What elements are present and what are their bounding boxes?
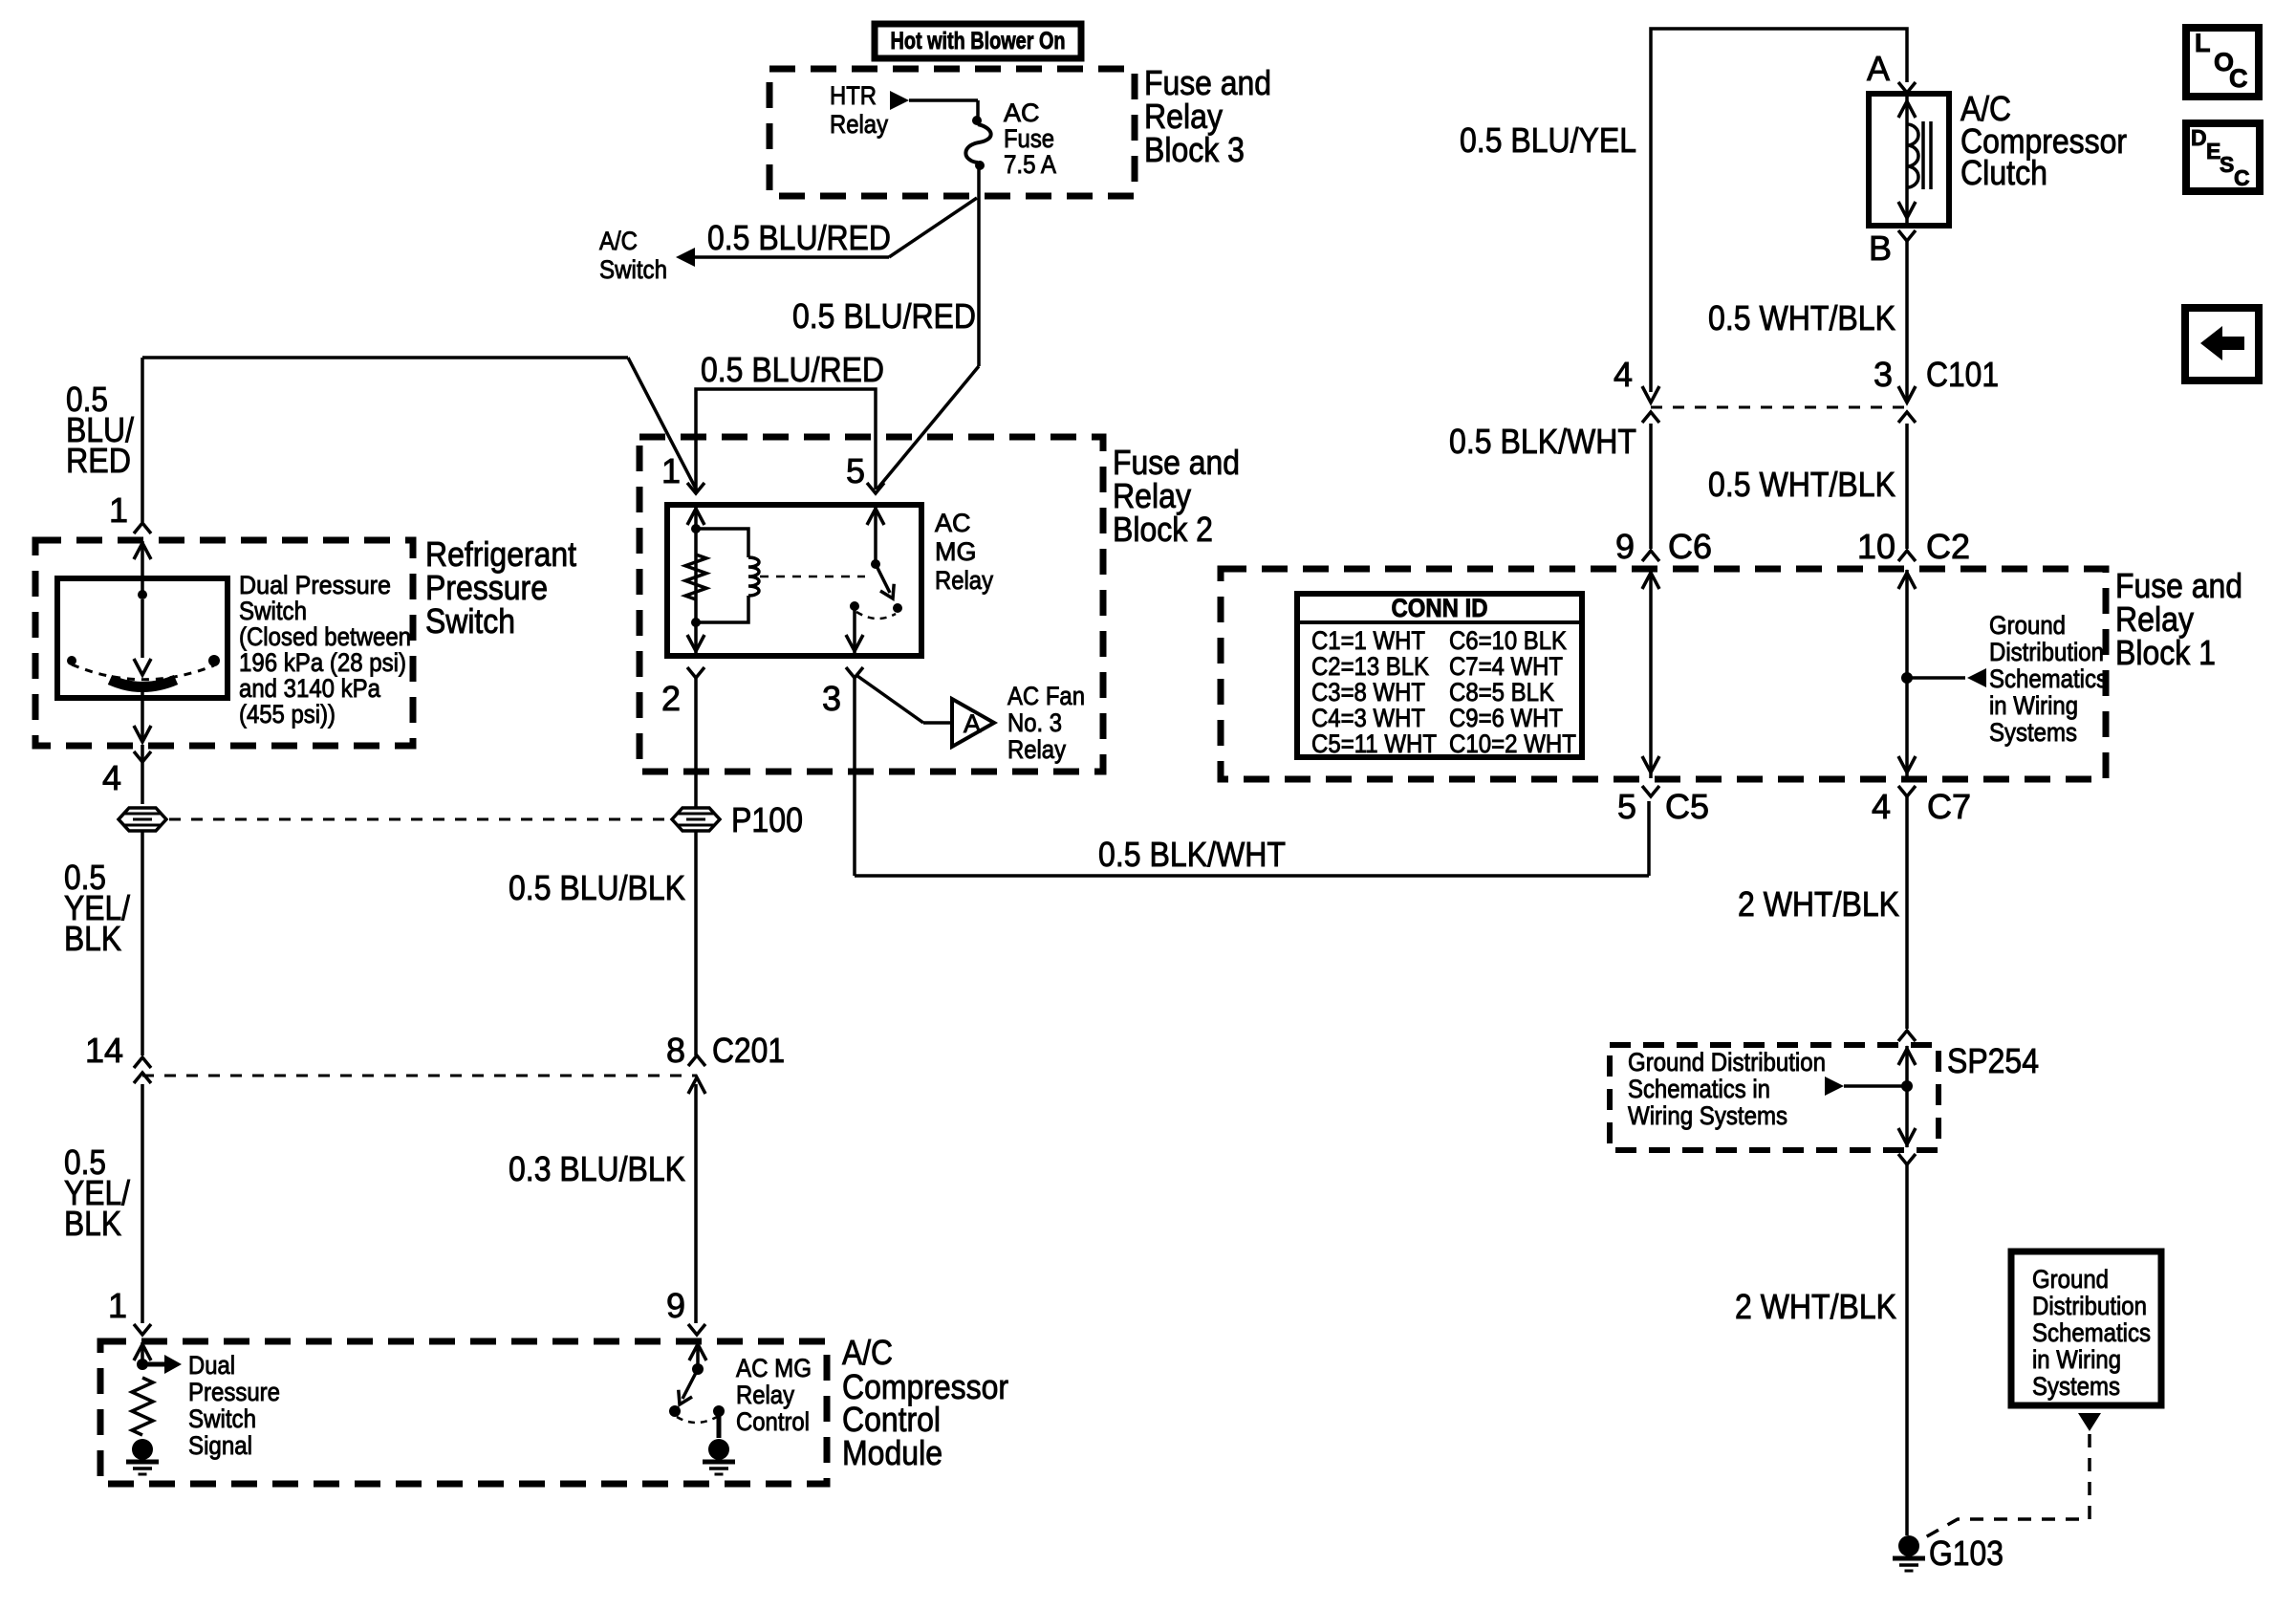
svg-text:Wiring Systems: Wiring Systems [1628,1101,1787,1130]
svg-text:1: 1 [661,451,681,490]
connector C6 [1642,551,1659,561]
switch: dual pressure switch moving contact [141,599,144,658]
svg-text:Switch: Switch [239,597,307,625]
coil: clutch winding [1905,95,1909,225]
svg-text:S: S [2220,152,2234,177]
connector clutch pin B [1898,230,1916,241]
ground G103 [1898,1535,1919,1556]
svg-text:Ground: Ground [2032,1265,2109,1294]
wire: 0.5 BLU/RED fuse output down [977,169,981,366]
svg-text:B: B [1869,228,1892,268]
svg-text:C: C [2234,165,2250,190]
svg-text:Distribution: Distribution [1989,638,2104,666]
svg-text:D: D [2191,125,2207,150]
dashed link: connector C201 [142,1075,697,1077]
svg-text:Switch: Switch [188,1404,256,1433]
svg-text:C4=3 WHT: C4=3 WHT [1311,704,1425,732]
svg-text:A: A [1867,49,1890,88]
wire: 0.5 BLU/YEL top run [1651,29,1907,392]
dashed box: SP254 splice [1610,1045,1939,1150]
dashed box: Fuse and Relay Block 3 [769,69,1135,196]
svg-text:0.5 BLK/WHT: 0.5 BLK/WHT [1098,835,1286,874]
wire: module pin 9 entry [696,1342,700,1367]
triangle: AC Fan No 3 Relay reference A [952,699,994,747]
svg-text:2: 2 [661,679,681,718]
svg-text:C10=2 WHT: C10=2 WHT [1449,729,1576,758]
node: AC MG relay control contact left [669,1405,681,1417]
svg-text:2 WHT/BLK: 2 WHT/BLK [1735,1287,1896,1326]
wire: 0.5 BLU/BLK relay pin2 to C201 pin 8 [694,832,698,1055]
connector clutch pin A [1898,82,1916,93]
node: relay coil bottom [691,618,701,627]
connector C101 chevrons [1642,412,1659,423]
box: Ground Distribution Schematics in Wiring Systems [2011,1251,2161,1405]
svg-text:Switch: Switch [425,601,515,641]
svg-text:14: 14 [85,1031,123,1070]
svg-text:P100: P100 [731,800,803,839]
svg-text:BLK: BLK [64,919,121,958]
node: relay common contact [850,601,859,611]
grommet P100 [672,808,720,831]
wire: relay pin 3 down [853,678,856,876]
resistor: relay internal [685,555,706,599]
wire: relay pin1 internal [694,506,698,655]
svg-text:C2: C2 [1926,527,1970,566]
svg-text:C201: C201 [712,1031,785,1070]
connector C5 [1642,786,1659,796]
box: Hot with Blower On banner [875,24,1081,58]
svg-text:3: 3 [1874,355,1893,394]
svg-text:Schematics: Schematics [1989,664,2108,693]
svg-text:C6: C6 [1668,527,1712,566]
svg-text:2 WHT/BLK: 2 WHT/BLK [1738,884,1899,924]
node: relay coil top [691,524,701,533]
svg-text:C101: C101 [1926,355,1999,394]
svg-text:8: 8 [666,1031,685,1070]
svg-text:Fuse: Fuse [1004,124,1054,153]
svg-text:SP254: SP254 [1947,1041,2039,1080]
svg-text:No. 3: No. 3 [1007,708,1062,737]
svg-text:AC Fan: AC Fan [1007,682,1085,710]
wire: entry into pressure switch [141,541,144,593]
switch: AC MG relay control arm [682,1369,698,1399]
box: LOC legend [2186,28,2259,97]
svg-text:C1=1 WHT: C1=1 WHT [1311,626,1425,655]
svg-text:0.5 BLU/YEL: 0.5 BLU/YEL [1460,120,1636,160]
svg-text:Relay: Relay [1007,735,1066,764]
wire: diagonal 0.5 BLU/RED to relay pin 5 [877,366,979,489]
node: relay switch pivot [871,559,880,569]
connector C201 pin 14 [134,1057,151,1068]
node: AC MG relay control contact right [713,1405,725,1417]
arrow: ground box reference [2078,1413,2101,1431]
svg-text:in Wiring: in Wiring [2032,1345,2121,1374]
resistor: dual pressure switch signal pull [132,1378,153,1435]
coil: relay winding [696,529,748,557]
node: pressure switch top contact [138,590,147,599]
svg-text:(Closed between: (Closed between [239,622,411,651]
box: dual pressure switch body [57,578,227,698]
svg-text:Ground Distribution: Ground Distribution [1628,1048,1826,1077]
wire: 2 WHT/BLK SP254 to G103 [1905,1164,1909,1535]
switch: dual pressure switch contact travel (dashed) [72,664,214,680]
svg-text:C2=13 BLK: C2=13 BLK [1311,652,1429,681]
svg-text:A/C: A/C [842,1333,893,1372]
svg-text:Switch: Switch [599,255,667,284]
wire: contact to internal ground [717,1415,722,1438]
svg-text:C5=11 WHT: C5=11 WHT [1311,729,1437,758]
dashed link between grommets [169,818,671,821]
svg-text:and 3140 kPa: and 3140 kPa [239,674,381,703]
dashed box: Fuse and Relay Block 1 [1221,569,2106,779]
svg-text:BLK: BLK [64,1204,121,1243]
svg-text:C5: C5 [1665,787,1709,826]
svg-text:10: 10 [1857,527,1895,566]
svg-text:C7=4 WHT: C7=4 WHT [1449,652,1563,681]
svg-text:9: 9 [666,1286,685,1325]
wire arrow at C101 pin 4 [1642,386,1659,402]
switch: relay arm [876,564,890,593]
wire: block1 left internal [1649,570,1653,778]
svg-text:0.5 BLU/RED: 0.5 BLU/RED [701,350,884,389]
svg-text:Control: Control [736,1407,810,1436]
wire: left column down to pressure switch pin 1 [141,358,144,522]
svg-text:1: 1 [109,490,128,530]
connector pin 1 of pressure switch [134,523,151,533]
svg-text:(455 psi)): (455 psi)) [239,700,336,729]
svg-text:4: 4 [1614,355,1633,394]
connector pin 4 of pressure switch [134,751,151,762]
svg-text:C6=10 BLK: C6=10 BLK [1449,626,1567,655]
wire: hot feed from HTR Relay to AC Fuse [890,91,909,110]
wire: relay pin 2 down to P100 [694,678,698,808]
fuse F: AC Fuse 7.5 A [972,116,982,125]
svg-text:Module: Module [842,1433,942,1472]
svg-text:in Wiring: in Wiring [1989,691,2078,720]
connector relay pin 1 [687,483,704,493]
svg-text:L: L [2195,29,2211,57]
connector module pin 9 [688,1324,705,1335]
connector C2 [1898,551,1916,561]
svg-text:C8=5 BLK: C8=5 BLK [1449,678,1554,707]
dashed box: Fuse and Relay Block 2 [639,437,1103,772]
svg-text:Block 3: Block 3 [1144,130,1245,169]
node: block1 ground distribution tap [1901,672,1913,684]
box: A/C Compressor Clutch [1869,94,1949,226]
icon: back arrow [2200,326,2244,360]
wire: pressure switch output to pin 4 [141,687,144,742]
svg-text:Hot with Blower On: Hot with Blower On [891,28,1066,54]
svg-text:Distribution: Distribution [2032,1292,2147,1320]
connector module pin 1 [134,1324,151,1335]
svg-text:Relay: Relay [830,110,888,139]
dashed link: ground box to G103 [1918,1434,2090,1541]
ground: module internal (left) [132,1439,153,1460]
wire: 0.5 WHT/BLK clutch B to C101 [1905,241,1909,402]
svg-text:A: A [964,709,981,738]
svg-text:AC MG: AC MG [736,1354,812,1382]
svg-text:A/C: A/C [599,227,638,255]
svg-text:0.3 BLU/BLK: 0.3 BLU/BLK [509,1149,685,1188]
svg-text:Pressure: Pressure [188,1378,280,1406]
dashed arc: relay contact travel [856,612,896,619]
table: CONN ID [1297,594,1582,757]
connector relay pin 2 [687,667,704,678]
wire: 0.5 YEL/BLK pin4 to C201 pin 14 [141,832,144,1055]
svg-text:Schematics in: Schematics in [1628,1075,1770,1103]
dashed link: relay actuation [760,576,865,578]
arrow: dual pressure switch signal ref [146,1362,164,1367]
svg-text:Signal: Signal [188,1431,252,1460]
wire: 0.5 YEL/BLK C201 to module pin 1 [141,1084,144,1323]
ground: module internal (right) [708,1439,729,1460]
svg-text:MG: MG [935,537,977,566]
arrow: ground distribution schematics ref (block1) [1907,676,1965,680]
svg-text:0.5 BLU/RED: 0.5 BLU/RED [707,218,891,257]
node: AC MG relay control pivot [692,1363,704,1375]
svg-text:Relay: Relay [935,566,993,595]
svg-text:7.5 A: 7.5 A [1004,150,1056,179]
svg-text:Ground: Ground [1989,611,2066,640]
dashed arc: AC MG relay control travel [677,1417,717,1423]
wire: 0.5 BLU/RED from refrigerant pressure switch (top left run) [142,356,628,359]
svg-text:0.5 BLU/RED: 0.5 BLU/RED [792,296,976,336]
wire: branch diagonal to A/C Switch [889,198,977,257]
svg-text:Dual Pressure: Dual Pressure [239,571,391,599]
arrow to A/C Switch [676,248,695,267]
wire: block1 right internal [1905,570,1909,778]
node: dual pressure switch signal [137,1359,148,1370]
dashed box: Refrigerant Pressure Switch [35,540,413,746]
svg-text:Clutch: Clutch [1960,153,2047,192]
svg-text:C7: C7 [1927,787,1971,826]
svg-text:AC: AC [935,509,971,537]
wire: 0.5 WHT/BLK C101 to C2 [1905,424,1909,549]
svg-text:AC: AC [1004,98,1040,127]
svg-text:CONN ID: CONN ID [1392,594,1488,622]
arrow: ground distribution ref (SP254) [1825,1077,1844,1096]
svg-text:196 kPa (28 psi): 196 kPa (28 psi) [239,648,406,677]
wire: 0.3 BLU/BLK C201 to module pin 9 [694,1084,698,1323]
box: DESC legend [2186,123,2260,191]
svg-text:Systems: Systems [2032,1372,2120,1401]
svg-text:Block 2: Block 2 [1113,510,1213,549]
connector above SP254 [1898,1031,1916,1041]
svg-text:5: 5 [1617,787,1636,826]
svg-text:C9=6 WHT: C9=6 WHT [1449,704,1563,732]
wire: 2 WHT/BLK C7 to SP254 [1905,796,1909,1029]
svg-text:0.5 BLK/WHT: 0.5 BLK/WHT [1449,422,1636,461]
svg-text:3: 3 [822,679,841,718]
svg-text:Schematics: Schematics [2032,1318,2151,1347]
connector relay pin 5 [867,483,884,493]
node: relay arm end [893,603,902,613]
box: back arrow legend [2185,308,2259,381]
svg-text:RED: RED [66,441,131,480]
svg-text:C: C [2229,64,2248,93]
svg-text:0.5 WHT/BLK: 0.5 WHT/BLK [1708,298,1895,337]
svg-text:9: 9 [1615,527,1635,566]
svg-text:Block 1: Block 1 [2115,633,2216,672]
svg-text:Systems: Systems [1989,718,2077,747]
wire: relay pin5 internal [874,506,877,562]
connector relay pin 3 [846,667,863,678]
svg-text:HTR: HTR [830,81,877,110]
svg-text:Dual: Dual [188,1351,235,1380]
wire: 0.5 BLK/WHT C101 to C6 [1649,424,1653,549]
svg-text:0.5 BLU/BLK: 0.5 BLU/BLK [509,868,685,907]
wire: 0.5 BLK/WHT run to C5 [855,874,1649,878]
svg-text:Relay: Relay [736,1381,794,1409]
connector C7 [1898,786,1916,796]
box: AC MG Relay [667,505,921,656]
svg-text:5: 5 [846,451,865,490]
wire: relay common to pin 3 [853,610,856,655]
dashed link: connector C101 [1651,406,1907,409]
svg-text:G103: G103 [1929,1534,2004,1573]
grommet P100 left side [119,808,166,831]
svg-text:C3=8 WHT: C3=8 WHT [1311,678,1425,707]
svg-text:0.5 WHT/BLK: 0.5 WHT/BLK [1708,465,1895,504]
svg-text:4: 4 [102,758,121,797]
connector C201 pin 8 [688,1055,705,1066]
connector below SP254 [1898,1154,1916,1164]
svg-text:1: 1 [108,1286,127,1325]
wire: branch to AC Fan No 3 relay [857,676,923,723]
wire: SP254 internal [1905,1046,1909,1147]
wire: module pin 1 entry [141,1342,144,1362]
svg-text:4: 4 [1872,787,1891,826]
dashed box: A/C Compressor Control Module [100,1341,827,1484]
wire: 0.5 BLU/RED bracket pins 1-5 [696,389,876,490]
node: SP254 splice point [1901,1080,1913,1092]
